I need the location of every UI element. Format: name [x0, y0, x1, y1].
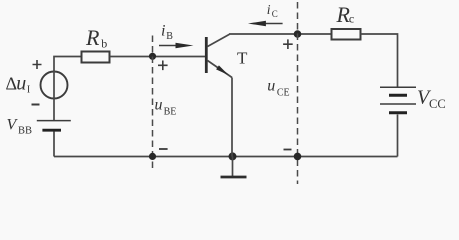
battery VCC plate short: [389, 94, 407, 97]
wire through source: [53, 71, 55, 121]
wire bottom rail: [54, 156, 398, 158]
resistor R1 Rb: [82, 52, 110, 63]
svg-text:T: T: [237, 49, 248, 68]
wire top-left (source to Rb): [54, 57, 82, 72]
current arrow iB: [159, 45, 179, 47]
plus sign at collector: [283, 39, 293, 49]
node collector junction dot: [294, 30, 302, 38]
svg-text:BB: BB: [18, 126, 32, 137]
dashed line at collector node: [297, 2, 299, 184]
plus sign at source: [33, 60, 42, 69]
minus sign below uBE: [159, 148, 168, 150]
ground: [221, 176, 247, 179]
dashed line at base node: [152, 36, 154, 170]
transistor emitter arrowhead: [216, 65, 229, 75]
svg-text:b: b: [101, 36, 107, 50]
battery VBB plate short: [42, 129, 61, 132]
battery VCC plate long top: [380, 86, 416, 88]
svg-text:i: i: [267, 2, 271, 17]
transistor Q1 base bar: [205, 37, 208, 73]
current arrow iC: [263, 23, 283, 25]
plus sign at base: [158, 61, 168, 71]
source ΔuI circle: [41, 72, 68, 99]
resistor R2 Rc: [332, 29, 361, 40]
minus sign below uCE: [284, 149, 292, 151]
transistor emitter diagonal: [208, 61, 233, 78]
svg-text:V: V: [7, 116, 19, 133]
battery VCC plate long lower: [380, 103, 416, 105]
svg-text:B: B: [166, 31, 173, 42]
battery VCC plate short lower: [389, 111, 407, 114]
transistor collector diagonal: [208, 34, 230, 46]
wire Rc to top-right corner: [361, 34, 398, 88]
svg-text:CE: CE: [277, 87, 290, 98]
node base junction dot: [149, 53, 156, 60]
svg-text:R: R: [85, 25, 100, 50]
svg-text:CC: CC: [429, 97, 446, 111]
svg-text:u: u: [267, 78, 275, 95]
ground stem: [232, 157, 234, 177]
svg-text:u: u: [16, 72, 26, 94]
svg-text:i: i: [161, 23, 165, 40]
svg-text:I: I: [27, 85, 30, 96]
wire Rb to base: [110, 56, 206, 58]
node bottom-left dot: [149, 153, 156, 160]
node bottom-right dot: [294, 153, 302, 161]
svg-text:u: u: [155, 97, 163, 114]
battery VBB plate long: [37, 120, 71, 122]
minus sign at source: [32, 104, 40, 106]
wire right vertical bottom: [397, 115, 399, 157]
wire emitter vertical: [231, 78, 233, 157]
wire VBB to bottom rail: [53, 132, 55, 157]
wire collector to Rc: [229, 33, 332, 35]
svg-text:BE: BE: [164, 106, 177, 117]
svg-text:C: C: [272, 9, 278, 19]
svg-text:c: c: [349, 12, 354, 26]
node bottom-middle dot: [229, 152, 237, 160]
